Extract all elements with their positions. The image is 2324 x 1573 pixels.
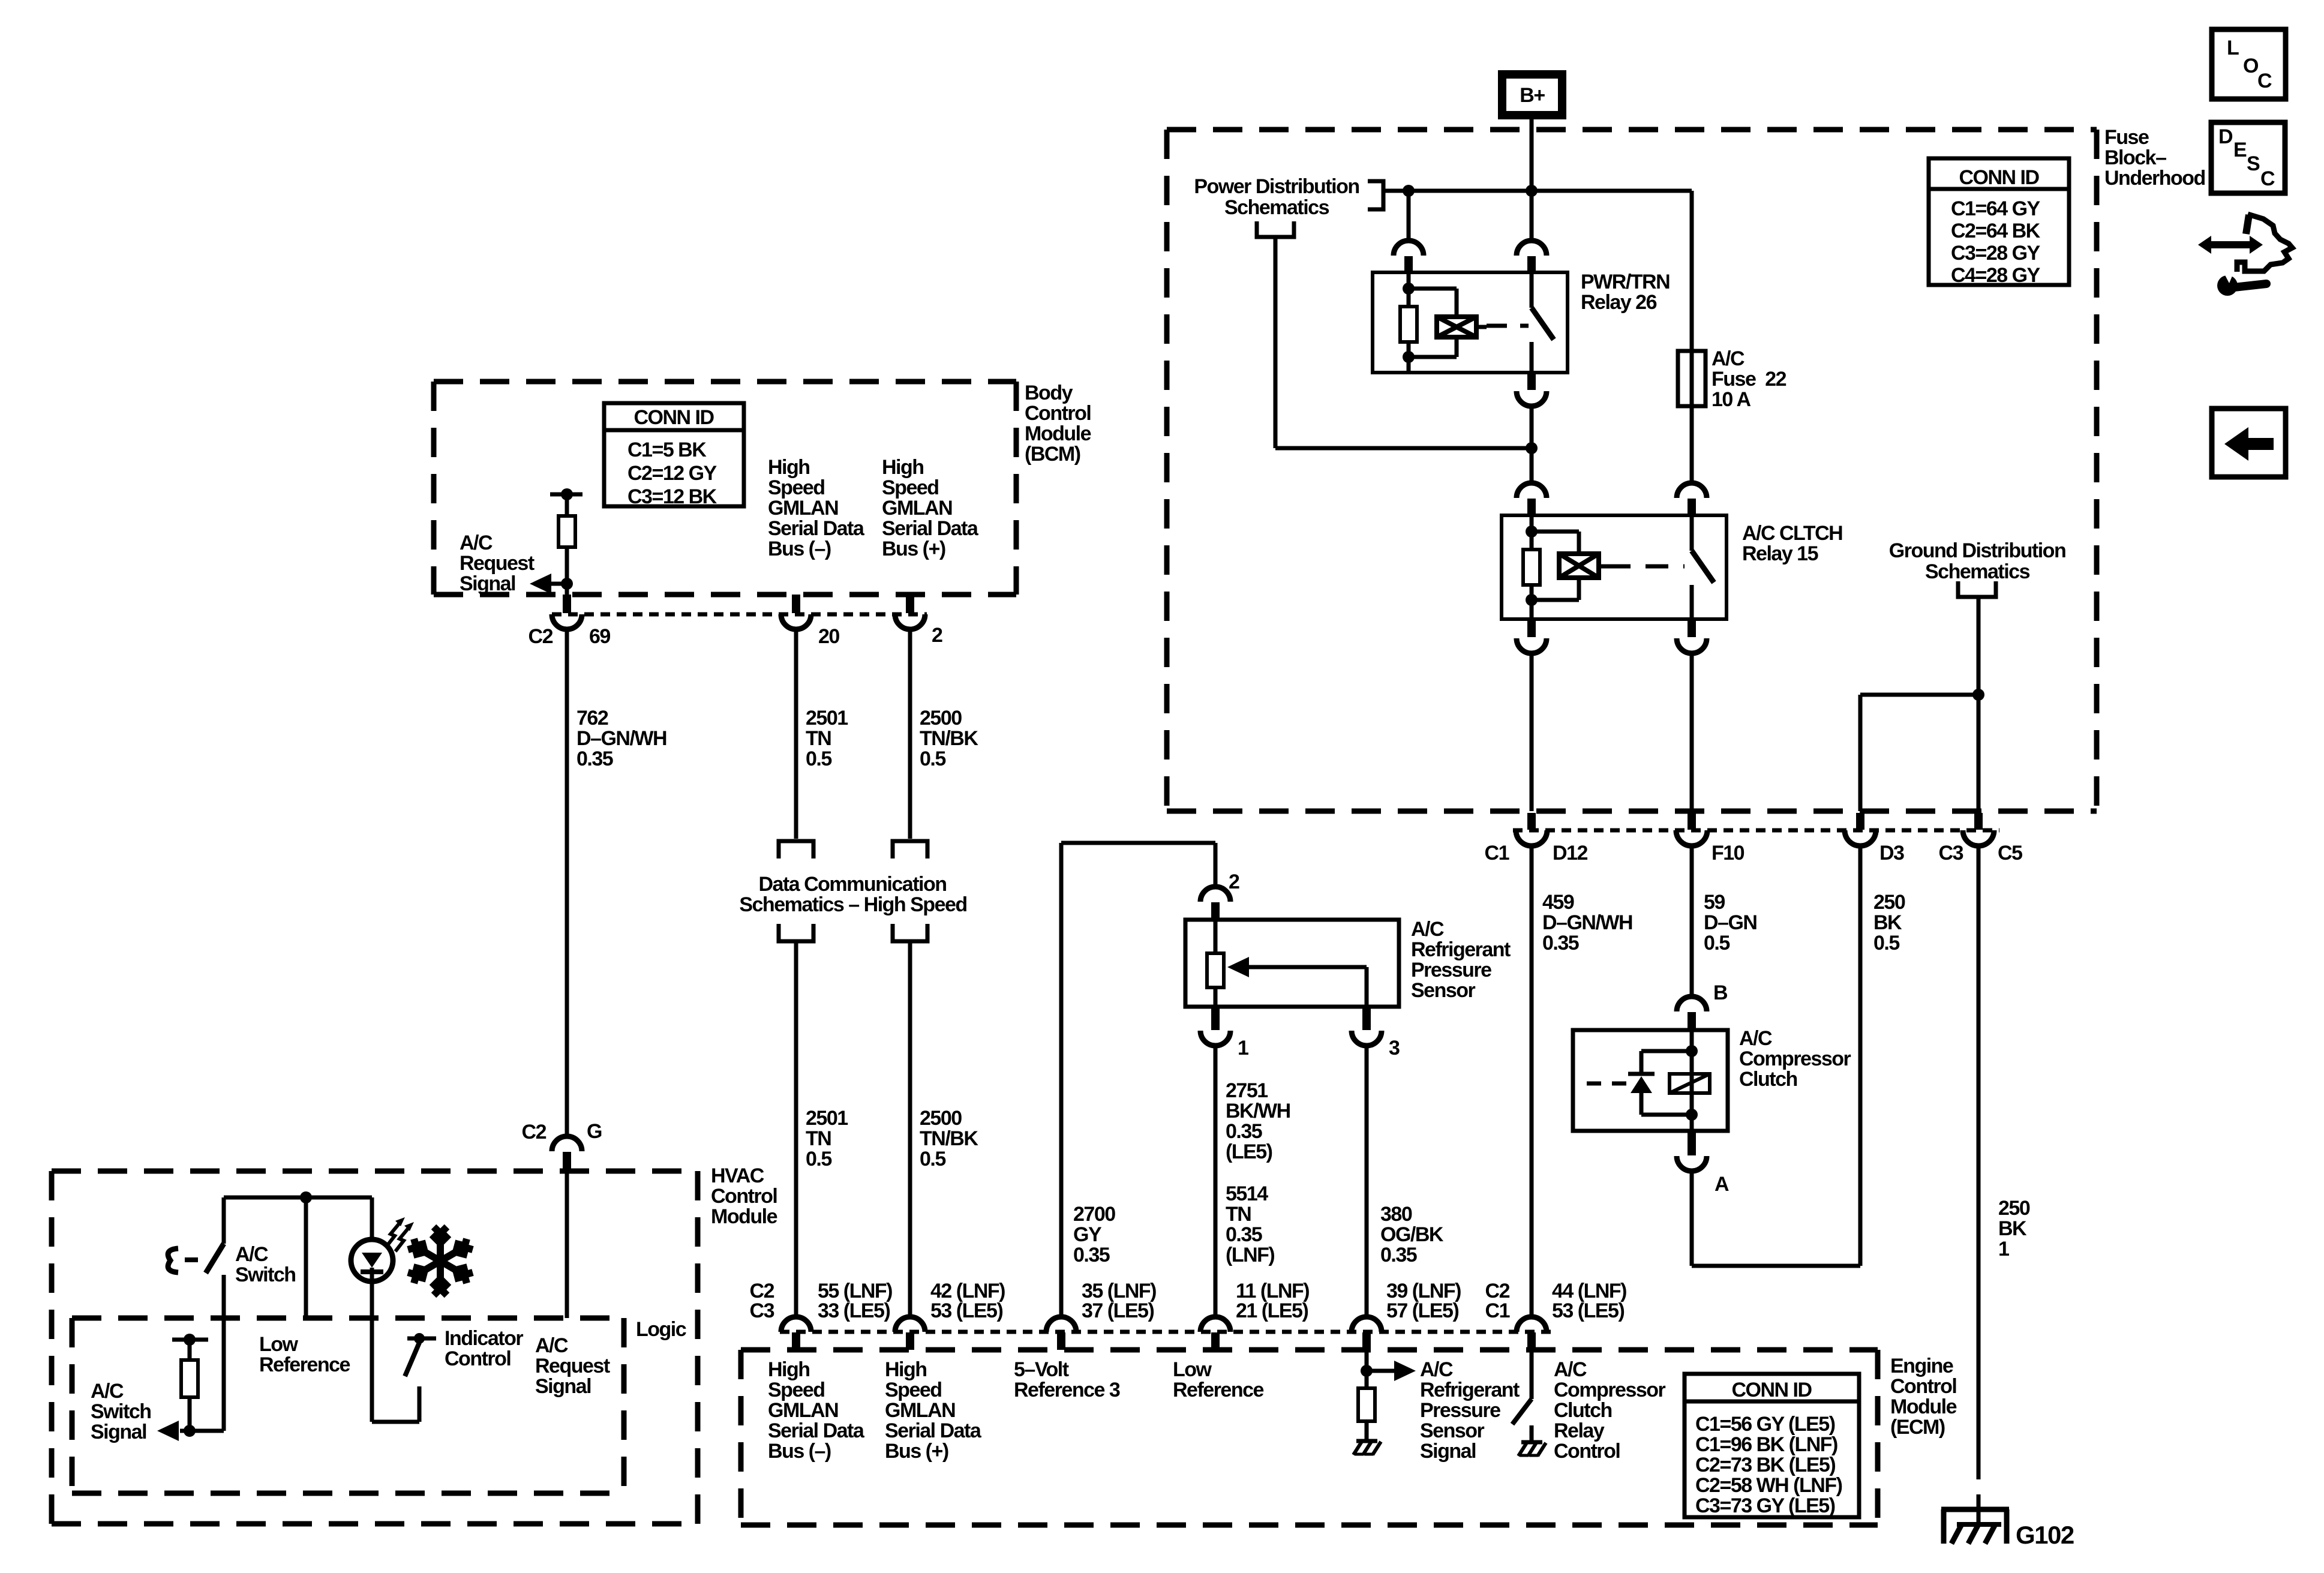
- svg-text:33 (LE5): 33 (LE5): [818, 1299, 890, 1322]
- svg-text:Relay 26: Relay 26: [1581, 291, 1657, 314]
- connector sensor pin 2: [1200, 887, 1230, 902]
- svg-text:69: 69: [589, 625, 610, 648]
- wire 59 D-GN 0.5 (F10 to clutch B): [1690, 846, 1694, 996]
- switch indicator control: [405, 1343, 419, 1376]
- svg-text:0.35: 0.35: [1226, 1223, 1262, 1246]
- wire A/C request inside HVAC: [565, 1170, 569, 1318]
- svg-text:Bus (+): Bus (+): [885, 1440, 948, 1463]
- svg-text:GMLAN: GMLAN: [885, 1399, 955, 1422]
- svg-text:2: 2: [1229, 870, 1239, 893]
- wire 2501 TN 0.5 upper: [794, 629, 798, 839]
- relay26 switch: [1530, 272, 1534, 308]
- svg-text:CONN ID: CONN ID: [1959, 166, 2039, 189]
- svg-text:High: High: [885, 1358, 927, 1381]
- svg-text:Compressor: Compressor: [1739, 1047, 1851, 1070]
- svg-text:Signal: Signal: [1420, 1440, 1476, 1463]
- wire 2501 TN 0.5 lower: [794, 941, 798, 1317]
- svg-text:C1=64 GY: C1=64 GY: [1951, 197, 2041, 220]
- wire A/C switch signal with arrow: [180, 1429, 224, 1433]
- connector HVAC pin C2/G: [552, 1136, 582, 1151]
- junction low reference: [300, 1191, 312, 1203]
- ECM clutch relay driver switch: [1530, 1350, 1534, 1399]
- svg-text:Serial Data: Serial Data: [768, 517, 865, 540]
- svg-text:D12: D12: [1553, 842, 1587, 864]
- wire LED to indicator control: [370, 1281, 374, 1422]
- snowflake icon: [408, 1227, 473, 1295]
- svg-text:G: G: [587, 1120, 602, 1143]
- svg-text:C1=5 BK: C1=5 BK: [627, 439, 707, 461]
- svg-text:C5: C5: [1998, 842, 2022, 864]
- svg-text:C2: C2: [522, 1121, 547, 1143]
- svg-text:Clutch: Clutch: [1739, 1068, 1797, 1091]
- svg-text:Request: Request: [535, 1355, 610, 1377]
- svg-text:(ECM): (ECM): [1890, 1416, 1945, 1439]
- module Engine Control Module (dashed): [741, 1347, 1878, 1353]
- BCM pull-up resistor for A/C request: [550, 493, 582, 497]
- fuse F22 A/C Fuse 22 10A: [1690, 351, 1694, 406]
- svg-text:C3: C3: [1939, 842, 1963, 864]
- svg-text:0.35: 0.35: [1380, 1244, 1417, 1266]
- svg-text:Indicator: Indicator: [445, 1327, 523, 1350]
- connector pin at x=2820: [1688, 813, 1696, 830]
- wire low reference: [304, 1197, 308, 1318]
- svg-text:459: 459: [1542, 891, 1574, 914]
- svg-text:762: 762: [577, 707, 608, 730]
- svg-text:CONN ID: CONN ID: [633, 406, 714, 429]
- svg-text:0.5: 0.5: [806, 748, 831, 770]
- connector ECM pin at x=2553: [1517, 1317, 1547, 1332]
- connector row dotted line (fuse block): [1513, 828, 1999, 833]
- wire ground distribution to C5: [1977, 597, 1981, 811]
- arrow A/C Request Signal: [539, 582, 567, 586]
- svg-text:Serial Data: Serial Data: [768, 1419, 865, 1442]
- symbol DESC box: [2211, 122, 2285, 193]
- svg-text:Fuse: Fuse: [2104, 126, 2149, 149]
- svg-text:5514: 5514: [1226, 1182, 1268, 1205]
- node Power Distribution bracket: [1368, 181, 1383, 209]
- component A/C Compressor Clutch box: [1573, 1030, 1728, 1131]
- svg-text:Clutch: Clutch: [1554, 1399, 1612, 1422]
- svg-text:BK: BK: [1873, 911, 1902, 934]
- svg-text:Reference: Reference: [259, 1353, 350, 1376]
- svg-text:A/C CLTCH: A/C CLTCH: [1742, 522, 1842, 545]
- svg-text:PWR/TRN: PWR/TRN: [1581, 271, 1670, 293]
- svg-text:Schematics: Schematics: [1224, 196, 1329, 219]
- svg-text:Sensor: Sensor: [1411, 979, 1476, 1002]
- svg-text:Speed: Speed: [882, 476, 939, 499]
- svg-text:Control: Control: [445, 1347, 511, 1370]
- svg-text:C2: C2: [529, 625, 553, 648]
- svg-text:BK/WH: BK/WH: [1226, 1100, 1290, 1122]
- svg-text:OG/BK: OG/BK: [1380, 1223, 1444, 1246]
- wire fuse to relay15: [1690, 406, 1694, 484]
- svg-text:20: 20: [818, 625, 839, 648]
- sensor wiper arrow: [1236, 965, 1367, 969]
- svg-text:0.5: 0.5: [1704, 932, 1730, 954]
- svg-text:G102: G102: [2016, 1521, 2074, 1549]
- svg-text:A/C: A/C: [1739, 1027, 1772, 1050]
- Fuse block CONN ID table: [1929, 158, 2069, 285]
- wire 2500 TN/BK 0.5 lower: [908, 941, 912, 1317]
- svg-text:Schematics – High Speed: Schematics – High Speed: [739, 893, 966, 916]
- wire relay15 switch to F10: [1690, 652, 1694, 811]
- ECM sensor signal input network: [1365, 1350, 1369, 1388]
- svg-text:2501: 2501: [806, 1107, 848, 1130]
- svg-text:GMLAN: GMLAN: [768, 497, 838, 520]
- node data bus off-page brackets upper: [779, 841, 813, 858]
- svg-text:Control: Control: [1554, 1440, 1620, 1463]
- wire power rail: [1383, 189, 1692, 193]
- svg-text:C3: C3: [750, 1299, 774, 1322]
- svg-text:D–GN: D–GN: [1704, 911, 1756, 934]
- wire from power distribution to relay output: [1274, 239, 1278, 448]
- svg-text:E: E: [2233, 139, 2247, 161]
- svg-text:A/C: A/C: [1411, 918, 1444, 941]
- svg-text:Relay 15: Relay 15: [1742, 542, 1818, 565]
- svg-text:A/C: A/C: [235, 1243, 268, 1266]
- connector BCM pin at x=1517: [906, 595, 914, 613]
- svg-text:TN: TN: [806, 727, 831, 750]
- svg-text:Pressure: Pressure: [1420, 1399, 1500, 1422]
- svg-text:TN/BK: TN/BK: [920, 1127, 978, 1150]
- svg-text:0.35: 0.35: [1226, 1120, 1262, 1143]
- symbol back-arrow box: [2212, 409, 2286, 477]
- svg-text:C3=12 BK: C3=12 BK: [627, 485, 717, 508]
- module Logic box (dashed): [72, 1316, 624, 1321]
- svg-text:2700: 2700: [1073, 1203, 1115, 1226]
- svg-text:A/C: A/C: [1420, 1358, 1453, 1381]
- connector relay15 coil output: [1527, 619, 1536, 637]
- wire 250 BK 1 (C5 to G102): [1977, 846, 1981, 1479]
- clutch relay coil symbol: [1670, 1074, 1710, 1093]
- ground G102: [1941, 1507, 2009, 1512]
- svg-text:Module: Module: [711, 1205, 777, 1228]
- A/C switch actuator bracket: [168, 1248, 178, 1272]
- svg-text:C2=64 BK: C2=64 BK: [1951, 220, 2041, 242]
- svg-text:2501: 2501: [806, 707, 848, 730]
- svg-text:53 (LE5): 53 (LE5): [1552, 1299, 1624, 1322]
- svg-text:Schematics: Schematics: [1925, 560, 2030, 583]
- svg-text:Bus (–): Bus (–): [768, 538, 831, 560]
- relay15 switch: [1690, 515, 1694, 551]
- component A/C Refrigerant Pressure Sensor box: [1185, 920, 1399, 1007]
- connector relay26 switch output: [1527, 373, 1536, 390]
- svg-text:Speed: Speed: [768, 1379, 825, 1401]
- wire HVAC internal top rail: [224, 1196, 372, 1200]
- svg-text:Bus (+): Bus (+): [882, 538, 945, 560]
- svg-text:Underhood: Underhood: [2104, 167, 2205, 190]
- wire 762 D-GN/WH 0.35 (BCM to HVAC): [565, 629, 569, 1137]
- junction ground/D3: [1972, 689, 1984, 701]
- svg-text:TN/BK: TN/BK: [920, 727, 978, 750]
- svg-text:2500: 2500: [920, 707, 962, 730]
- svg-text:CONN ID: CONN ID: [1731, 1379, 1812, 1401]
- svg-text:C1=96 BK (LNF): C1=96 BK (LNF): [1695, 1433, 1837, 1456]
- svg-text:Relay: Relay: [1554, 1419, 1605, 1442]
- svg-text:Bus (–): Bus (–): [768, 1440, 831, 1463]
- connector BCM pin at x=945: [563, 595, 571, 613]
- svg-text:0.5: 0.5: [1873, 932, 1899, 954]
- wire 5-volt reference riser: [1059, 843, 1064, 1317]
- power symbol B+: [1502, 74, 1562, 115]
- svg-text:250: 250: [1998, 1197, 2030, 1220]
- svg-text:380: 380: [1380, 1203, 1412, 1226]
- connector relay26 switch pin: [1517, 241, 1547, 256]
- svg-text:Sensor: Sensor: [1420, 1419, 1485, 1442]
- relay26 coil resistor: [1407, 272, 1411, 307]
- svg-text:BK: BK: [1998, 1217, 2027, 1240]
- LED indicator with wire: [370, 1197, 374, 1241]
- wire B+ to rail: [1530, 119, 1534, 191]
- svg-text:C: C: [2257, 70, 2272, 92]
- svg-text:Module: Module: [1890, 1395, 1957, 1418]
- connector ECM pin at x=1769: [1046, 1317, 1076, 1332]
- svg-text:Compressor: Compressor: [1554, 1379, 1666, 1401]
- module Body Control Module (dashed): [434, 379, 1016, 385]
- svg-text:Low: Low: [259, 1333, 299, 1356]
- svg-text:Block–: Block–: [2104, 146, 2166, 169]
- connector ECM pin at x=1517: [895, 1317, 925, 1332]
- svg-text:Module: Module: [1025, 422, 1091, 445]
- svg-text:O: O: [2243, 55, 2259, 77]
- relay26 coil-to-switch dashed link: [1476, 325, 1487, 329]
- svg-text:TN: TN: [806, 1127, 831, 1150]
- relay15 coil winding: [1532, 530, 1579, 534]
- svg-text:59: 59: [1704, 891, 1725, 914]
- wire rail to fuse: [1690, 191, 1694, 351]
- svg-text:10 A: 10 A: [1712, 388, 1751, 411]
- connector relay15 switch output: [1688, 619, 1696, 637]
- svg-text:0.5: 0.5: [920, 748, 945, 770]
- svg-text:Reference: Reference: [1173, 1379, 1264, 1401]
- icon vehicle with double arrow and wrench: [2198, 236, 2263, 254]
- svg-text:(BCM): (BCM): [1025, 443, 1080, 466]
- svg-text:(LNF): (LNF): [1226, 1244, 1274, 1266]
- svg-text:Power Distribution: Power Distribution: [1194, 175, 1359, 198]
- connector pin at x=3101: [1856, 813, 1864, 830]
- svg-text:57 (LE5): 57 (LE5): [1386, 1299, 1458, 1322]
- svg-text:C1=56 GY (LE5): C1=56 GY (LE5): [1695, 1413, 1835, 1436]
- svg-text:(LE5): (LE5): [1226, 1140, 1272, 1163]
- wire 250 BK 0.5 (D3 to clutch A): [1858, 846, 1863, 1266]
- svg-text:A/C: A/C: [1554, 1358, 1587, 1381]
- svg-text:Signal: Signal: [460, 572, 515, 595]
- connector ECM pin at x=2026: [1200, 1317, 1230, 1332]
- svg-text:Pressure: Pressure: [1411, 959, 1491, 981]
- connector ECM pin at x=1327: [781, 1317, 811, 1332]
- svg-text:1: 1: [1998, 1238, 2009, 1260]
- wire 459 D-GN/WH 0.35 (D12 to ECM): [1530, 846, 1534, 1317]
- svg-text:Fuse 22: Fuse 22: [1712, 368, 1786, 391]
- connector sensor pin 1: [1211, 1007, 1220, 1030]
- svg-text:C1: C1: [1485, 842, 1509, 864]
- clutch coil wire: [1690, 1030, 1694, 1131]
- svg-text:Request: Request: [460, 552, 535, 575]
- svg-text:1: 1: [1238, 1037, 1248, 1059]
- switch S1 A/C Switch: [222, 1197, 226, 1244]
- sensor potentiometer: [1214, 920, 1218, 953]
- svg-text:Control: Control: [711, 1185, 777, 1208]
- svg-text:HVAC: HVAC: [711, 1164, 764, 1187]
- svg-text:B: B: [1713, 981, 1728, 1004]
- connector relay15 switch pin: [1677, 483, 1707, 498]
- relay K15 A/C CLTCH Relay 15 box: [1502, 515, 1727, 619]
- svg-text:Control: Control: [1025, 402, 1091, 425]
- node Ground Distribution bracket: [1958, 581, 1996, 597]
- svg-text:2: 2: [932, 624, 942, 647]
- svg-text:250: 250: [1873, 891, 1905, 914]
- svg-text:C3=28 GY: C3=28 GY: [1951, 242, 2041, 265]
- svg-text:D: D: [2218, 125, 2233, 148]
- svg-text:Serial Data: Serial Data: [882, 517, 979, 540]
- svg-text:Control: Control: [1890, 1375, 1956, 1398]
- junction rail/coil: [1403, 185, 1415, 197]
- svg-text:GMLAN: GMLAN: [768, 1399, 838, 1422]
- svg-text:D–GN/WH: D–GN/WH: [577, 727, 666, 750]
- module Fuse Block - Underhood (dashed): [1167, 127, 2097, 133]
- relay26 coil winding: [1409, 287, 1457, 291]
- wire sensor pin1 to ECM: [1214, 1046, 1218, 1317]
- wire relay26 to relay15: [1530, 405, 1534, 484]
- svg-text:21 (LE5): 21 (LE5): [1236, 1299, 1308, 1322]
- svg-text:Ground Distribution: Ground Distribution: [1889, 539, 2065, 562]
- svg-text:D–GN/WH: D–GN/WH: [1542, 911, 1632, 934]
- svg-text:C4=28 GY: C4=28 GY: [1951, 264, 2041, 287]
- connector relay26 coil pin: [1394, 241, 1424, 256]
- svg-text:D3: D3: [1879, 842, 1904, 864]
- connector pin at x=3298: [1974, 813, 1983, 830]
- symbol LOC box: [2212, 29, 2286, 99]
- wire to D3: [1860, 693, 1978, 697]
- svg-text:2751: 2751: [1226, 1079, 1268, 1102]
- svg-text:C2=58 WH (LNF): C2=58 WH (LNF): [1695, 1474, 1842, 1497]
- svg-text:0.5: 0.5: [806, 1148, 831, 1170]
- module HVAC Control Module (dashed): [52, 1169, 698, 1174]
- node data bus off-page brackets lower: [779, 924, 813, 941]
- svg-text:L: L: [2227, 37, 2239, 59]
- wire 2500 TN/BK 0.5 upper: [908, 629, 912, 839]
- svg-text:A/C: A/C: [1712, 347, 1744, 370]
- svg-text:Data Communication: Data Communication: [758, 873, 946, 896]
- svg-text:53 (LE5): 53 (LE5): [930, 1299, 1002, 1322]
- svg-text:A: A: [1715, 1173, 1729, 1196]
- svg-text:C: C: [2260, 167, 2275, 190]
- svg-text:Serial Data: Serial Data: [885, 1419, 982, 1442]
- svg-text:Refrigerant: Refrigerant: [1411, 938, 1511, 961]
- svg-text:0.35: 0.35: [1073, 1244, 1110, 1266]
- svg-text:B+: B+: [1520, 84, 1545, 107]
- connector sensor pin 3: [1362, 1007, 1371, 1030]
- relay15 coil resistor: [1530, 515, 1534, 550]
- svg-text:S: S: [2247, 152, 2260, 175]
- svg-text:F10: F10: [1712, 842, 1744, 864]
- BCM CONN ID table: [604, 403, 744, 506]
- wire rail to relay26 switch: [1530, 191, 1534, 242]
- LED emission lightning bolts: [386, 1224, 399, 1247]
- svg-text:0.5: 0.5: [920, 1148, 945, 1170]
- svg-text:High: High: [882, 456, 924, 479]
- connector clutch pin B: [1677, 996, 1707, 1011]
- svg-text:Speed: Speed: [768, 476, 825, 499]
- svg-text:Signal: Signal: [535, 1375, 591, 1398]
- svg-text:C2=73 BK (LE5): C2=73 BK (LE5): [1695, 1454, 1835, 1476]
- relay15 coil-to-switch dashed link: [1599, 565, 1609, 569]
- svg-text:GY: GY: [1073, 1223, 1102, 1246]
- connector row dotted line (ECM): [780, 1330, 1551, 1334]
- svg-text:Refrigerant: Refrigerant: [1420, 1379, 1520, 1401]
- svg-text:A/C: A/C: [535, 1334, 568, 1357]
- svg-text:0.35: 0.35: [577, 748, 613, 770]
- clutch suppression diode loop: [1641, 1049, 1692, 1053]
- icon wrench: [2234, 284, 2266, 287]
- wire relay15 coil to C1/D12: [1530, 652, 1534, 811]
- connector relay15 coil pin: [1517, 483, 1547, 498]
- svg-text:C2=12 GY: C2=12 GY: [627, 462, 717, 485]
- svg-text:37 (LE5): 37 (LE5): [1082, 1299, 1154, 1322]
- relay K26 PWR/TRN Relay 26 box: [1373, 272, 1568, 373]
- svg-text:Speed: Speed: [885, 1379, 942, 1401]
- svg-text:0.35: 0.35: [1542, 932, 1579, 954]
- connector clutch pin A: [1688, 1131, 1696, 1155]
- svg-text:Engine: Engine: [1890, 1355, 1953, 1377]
- svg-text:GMLAN: GMLAN: [882, 497, 952, 520]
- resistor A/C switch signal: [172, 1338, 208, 1342]
- ECM CONN ID table: [1685, 1374, 1859, 1517]
- svg-text:Signal: Signal: [91, 1421, 146, 1443]
- svg-text:C3=73 GY (LE5): C3=73 GY (LE5): [1695, 1494, 1835, 1517]
- connector row dotted line (BCM): [552, 613, 927, 617]
- node Power Distribution lower bracket: [1257, 221, 1294, 237]
- wire rail to relay26 coil: [1407, 191, 1411, 242]
- svg-text:C1: C1: [1485, 1299, 1510, 1322]
- svg-text:Reference 3: Reference 3: [1014, 1379, 1120, 1401]
- svg-text:Body: Body: [1025, 382, 1073, 404]
- svg-text:TN: TN: [1226, 1203, 1251, 1226]
- svg-text:Switch: Switch: [91, 1400, 151, 1423]
- svg-text:Logic: Logic: [636, 1318, 686, 1341]
- connector ECM pin at x=2278: [1352, 1317, 1382, 1332]
- svg-text:Switch: Switch: [235, 1263, 296, 1286]
- svg-text:A/C: A/C: [460, 532, 493, 554]
- connector BCM pin at x=1327: [792, 595, 800, 613]
- svg-text:High: High: [768, 1358, 810, 1381]
- svg-text:A/C: A/C: [91, 1380, 124, 1403]
- connector pin at x=2553: [1527, 813, 1536, 830]
- svg-text:5–Volt: 5–Volt: [1014, 1358, 1069, 1381]
- svg-text:3: 3: [1389, 1037, 1400, 1059]
- svg-text:2500: 2500: [920, 1107, 962, 1130]
- wire sensor pin3 to ECM: [1365, 1046, 1369, 1317]
- clutch dashed actuation link: [1587, 1082, 1627, 1086]
- junction rail/B+: [1526, 185, 1538, 197]
- svg-text:Low: Low: [1173, 1358, 1212, 1381]
- svg-text:High: High: [768, 456, 810, 479]
- junction at relay output: [1526, 442, 1538, 454]
